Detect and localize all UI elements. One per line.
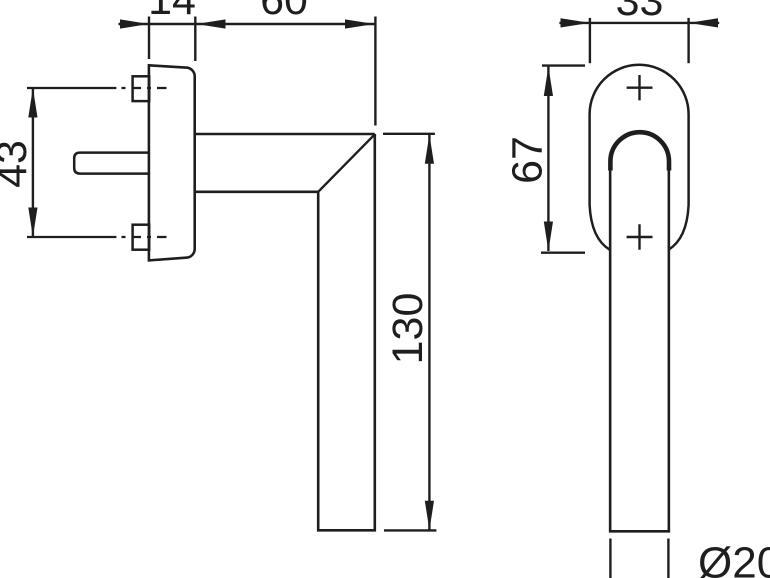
svg-text:Ø20: Ø20	[698, 538, 770, 578]
arrow 43 top (pointing up)	[28, 88, 37, 118]
handle miter edge (side view)	[318, 134, 375, 192]
extension line at rosette right	[194, 17, 196, 62]
centerline bottom screw	[27, 236, 116, 238]
handle neck (side view)	[196, 134, 375, 192]
screw head bottom (side view)	[133, 225, 150, 250]
screw cross bottom (front view)	[627, 224, 653, 249]
extension line at lever top corner	[383, 133, 435, 135]
arrow 33 right (outside, pointing left)	[689, 18, 718, 27]
arrow 33 left (outside, pointing right)	[561, 18, 590, 27]
screw cross top (front view)	[627, 75, 653, 100]
screw head top (side view)	[133, 76, 150, 101]
rosette side view	[149, 65, 195, 260]
dimension line 14/60 (top, side view)	[119, 23, 376, 25]
extension line rosette front right	[687, 18, 689, 63]
extension line rosette front left	[589, 18, 591, 63]
handle grip front view: bar sides and bottom	[610, 164, 669, 531]
arrow 60 right (pointing right)	[345, 19, 374, 28]
centerline top screw	[27, 87, 116, 89]
dimension line 130 (vertical)	[428, 134, 430, 530]
svg-text:33: 33	[616, 0, 664, 25]
extension line dia20 right	[667, 539, 669, 578]
arrow 14 left (outside, pointing right)	[120, 19, 149, 28]
dimension line 67 (vertical)	[547, 67, 549, 252]
spindle (square shaft)	[74, 153, 149, 174]
extension line dia20 left	[609, 539, 611, 578]
arrow 67 top (pointing up)	[544, 67, 553, 97]
arrow 43 bottom (pointing down)	[28, 208, 37, 238]
extension line at rosette left	[148, 17, 150, 60]
handle grip front view: thick shoulder arc	[610, 132, 669, 170]
arrow 130 bottom (pointing down)	[425, 501, 434, 531]
extension line 67 top	[542, 64, 585, 66]
arrow 67 bottom (pointing down)	[544, 222, 553, 252]
svg-text:60: 60	[260, 0, 308, 24]
extension line 67 bottom	[541, 251, 585, 253]
arrow 130 top (pointing up)	[425, 134, 434, 164]
extension line at lever bottom	[384, 529, 436, 531]
extension line at lever right	[374, 17, 376, 126]
rosette front view (stadium outline)	[590, 65, 689, 250]
arrow 60 left (pointing left)	[196, 19, 225, 28]
handle lever (side view)	[318, 134, 375, 530]
dimension line 43 (vertical, far left)	[32, 88, 34, 237]
svg-text:14: 14	[148, 0, 196, 24]
dimension line 33 (top, front view)	[559, 22, 719, 24]
svg-text:67: 67	[503, 136, 551, 184]
svg-text:130: 130	[384, 293, 432, 365]
svg-text:43: 43	[0, 140, 36, 188]
